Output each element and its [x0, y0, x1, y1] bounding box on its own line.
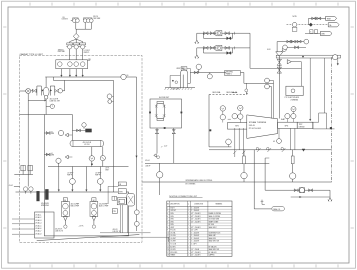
- svg-text:JB: JB: [119, 184, 121, 186]
- tank left feed column: [43, 115, 45, 193]
- svg-text:TC CON: TC CON: [170, 244, 176, 246]
- right isolation valve: [55, 89, 59, 92]
- left filter bracket: [37, 86, 42, 96]
- svg-text:TRIP: TRIP: [299, 124, 303, 126]
- svg-text:CTB: CTB: [113, 211, 116, 213]
- svg-text:DRN: DRN: [170, 213, 173, 215]
- svg-text:MTR DRVN: MTR DRVN: [41, 205, 49, 207]
- vertical feed to cooler: [71, 115, 73, 141]
- svg-text:1/2" - 150LB R: 1/2" - 150LB R: [191, 227, 200, 229]
- svg-text:LUB OIL TK: LUB OIL TK: [55, 230, 63, 232]
- drain stub valve 1: [44, 132, 50, 134]
- svg-text:CONC SUMP: CONC SUMP: [171, 89, 179, 91]
- manifold row 5: [283, 45, 288, 50]
- svg-text:OIL RET: OIL RET: [170, 238, 176, 240]
- svg-text:14: 14: [167, 244, 169, 246]
- svg-text:415-V3-PM: 415-V3-PM: [41, 203, 49, 205]
- instrument shelf corner: [108, 185, 118, 187]
- SPG gauges: [285, 114, 290, 119]
- svg-text:DRN: DRN: [170, 224, 173, 226]
- svg-text:GD: GD: [273, 141, 275, 143]
- drain drop with gauge x=292.7: [292, 150, 294, 156]
- flow indicator FI cluster: [196, 64, 201, 69]
- SPG box: [278, 122, 298, 128]
- instrument group PSH (trip sensors): [83, 18, 92, 20]
- svg-text:NO: NO: [167, 204, 169, 206]
- svg-text:DRN: DRN: [51, 155, 54, 157]
- branch to three regulators: [70, 39, 83, 41]
- pressure switches on tank top: [23, 187, 27, 191]
- svg-text:LUBE OIL STR: LUBE OIL STR: [50, 100, 61, 102]
- drain stub valve 2: [44, 154, 50, 156]
- accumulator unit box: [150, 99, 182, 128]
- svg-text:GEN SPEC: GEN SPEC: [226, 72, 233, 74]
- svg-text:1/2" - 150LB R: 1/2" - 150LB R: [191, 221, 200, 223]
- svg-text:SRN: SRN: [88, 59, 91, 61]
- svg-text:TRSH: TRSH: [327, 18, 331, 20]
- vertical pump P1: [63, 198, 67, 202]
- turbine drain header y=149.8: [209, 149, 332, 151]
- svg-text:BY USE: BY USE: [209, 224, 214, 226]
- bearing box BRG: [228, 123, 248, 130]
- shaft end bearing: [333, 55, 338, 60]
- svg-text:SCREWED PLUG: SCREWED PLUG: [209, 232, 222, 234]
- notes box with leader lines: [35, 212, 55, 238]
- svg-text:PR OIL: PR OIL: [93, 16, 98, 18]
- svg-text:PT-421-0101: PT-421-0101: [249, 128, 262, 130]
- immersion heater: [118, 189, 126, 194]
- svg-text:OIL: OIL: [62, 17, 65, 19]
- svg-text:2" - 150LB R: 2" - 150LB R: [191, 210, 199, 212]
- vent stack with gooseneck: [179, 73, 181, 88]
- sample flag 2: [65, 155, 68, 159]
- svg-text:1" - 150LB R: 1" - 150LB R: [191, 241, 199, 243]
- lines from bearing box down to drain header: [234, 128, 236, 150]
- header y=163.3: [145, 162, 269, 164]
- logic diamond: [73, 33, 79, 39]
- pressure regulator valve at x=76.2: [73, 43, 79, 45]
- svg-text:THRU B: THRU B: [58, 49, 64, 51]
- SEAL OIL connector flag: [272, 207, 285, 211]
- small callout left: [181, 67, 187, 71]
- svg-text:MN LO PMP: MN LO PMP: [71, 206, 79, 208]
- suction line and left isolation valve: [31, 90, 33, 92]
- ground hatch: [165, 87, 195, 89]
- vertical pump P2: [92, 198, 96, 202]
- stacked gauges x=109.6: [107, 94, 112, 99]
- manifold row 3: [305, 33, 320, 35]
- pressure regulator valve at x=82.7: [80, 43, 86, 45]
- svg-text:DRN: DRN: [170, 221, 173, 223]
- svg-text:Q: Q: [188, 204, 189, 206]
- lower tail line: [291, 196, 330, 198]
- svg-text:DRN: DRN: [170, 216, 173, 218]
- svg-text:501-B: 501-B: [249, 125, 255, 127]
- tank top instrument circles: [56, 158, 61, 163]
- cabinet boundary CABINET TYPE LO UNIT (dashed): [19, 55, 142, 242]
- seal oil drain run: [253, 150, 255, 209]
- return drops into tank: [58, 167, 60, 190]
- svg-text:2" - 150LB R: 2" - 150LB R: [191, 207, 199, 209]
- steam inlet valves: [278, 56, 280, 118]
- pump bypass return: [28, 94, 44, 101]
- svg-text:VENT: VENT: [170, 227, 174, 229]
- dark inline devices (level columns): [37, 191, 40, 201]
- lube oil tank outline: [44, 192, 128, 236]
- PTC junction box: [286, 86, 303, 95]
- svg-text:1" - NPT: 1" - NPT: [191, 244, 197, 246]
- svg-text:1/2" - NPT: 1/2" - NPT: [191, 230, 198, 232]
- turbine shaft band: [276, 55, 340, 58]
- console bottom gauge: [226, 139, 232, 145]
- svg-text:OUTLET: OUTLET: [170, 210, 176, 212]
- svg-text:1" - 150LB R: 1" - 150LB R: [191, 232, 199, 234]
- turbine console box (dashed top): [209, 94, 247, 96]
- branch into turbine console with junction gauge: [245, 83, 247, 93]
- svg-text:15: 15: [167, 246, 169, 248]
- cabinet edge gauges: [134, 210, 139, 215]
- stack side tap: [170, 75, 180, 77]
- svg-text:DRN: DRN: [170, 219, 173, 221]
- svg-text:415-V3: 415-V3: [113, 229, 118, 231]
- CTB box: [112, 209, 117, 214]
- manifold row 4: [277, 41, 304, 43]
- box nozzle marks: [149, 112, 151, 114]
- svg-text:LO SPLY: LO SPLY: [84, 50, 90, 52]
- svg-text:DRN: DRN: [321, 34, 324, 36]
- svg-text:LO CLR: LO CLR: [84, 144, 90, 146]
- drain pot symbol: [262, 200, 265, 205]
- trip device box: [297, 122, 313, 128]
- svg-text:1/2" - 150LB R: 1/2" - 150LB R: [191, 213, 200, 215]
- motor starter box with 4 indicators: [56, 60, 88, 69]
- ZS switch pair: [21, 165, 25, 171]
- manifold row 2 (signal): [287, 24, 329, 26]
- discharge check circle: [58, 89, 62, 93]
- svg-text:LVL SW: LVL SW: [170, 249, 176, 251]
- signal lines to logic diamond: [75, 23, 77, 30]
- supply header B (y=80.4): [52, 77, 54, 80]
- accumulator vessel: [157, 102, 164, 104]
- pressure regulator valve at x=69.7: [67, 43, 73, 45]
- supply header A (y=77): [45, 76, 136, 78]
- skid base slant: [37, 235, 140, 241]
- svg-text:17: 17: [167, 252, 169, 254]
- svg-text:TRIP SNR: TRIP SNR: [93, 18, 101, 20]
- sample flag 1: [65, 133, 68, 137]
- svg-text:BY OTHERS: BY OTHERS: [186, 184, 197, 186]
- svg-text:PMP P1: PMP P1: [67, 174, 73, 176]
- right filter bracket: [50, 86, 55, 96]
- flow arrows from starter box to supply header: [60, 69, 62, 76]
- drain to header: [173, 134, 175, 164]
- svg-text:415-V3-PMP: 415-V3-PMP: [99, 204, 108, 206]
- suction line from tank along cabinet edge: [27, 100, 29, 186]
- drain drop with gauge x=244: [243, 150, 245, 156]
- svg-text:CABINET TYPE LO UNIT: CABINET TYPE LO UNIT: [20, 53, 44, 56]
- level element LE box: [117, 198, 126, 205]
- svg-text:3" - 150LB R: 3" - 150LB R: [191, 238, 199, 240]
- oil cooler capsule: [70, 140, 104, 146]
- governor gauge: [277, 139, 282, 144]
- gauges below cooler: [89, 156, 94, 161]
- trap discharge line down then right to turbine gland: [249, 33, 251, 68]
- svg-text:11: 11: [167, 235, 169, 237]
- svg-text:FE: FE: [127, 75, 129, 77]
- line down to vent stack: [188, 73, 191, 84]
- svg-text:DEVICE: DEVICE: [299, 126, 305, 128]
- svg-text:16: 16: [167, 249, 169, 251]
- heater junction box: [118, 182, 126, 186]
- steam turbine: [247, 115, 278, 138]
- svg-text:OIL FILL: OIL FILL: [170, 235, 176, 237]
- equipment callout GEN SPEC: [225, 71, 241, 76]
- svg-text:415-V3-STR: 415-V3-STR: [50, 99, 59, 101]
- svg-text:10: 10: [167, 232, 169, 234]
- svg-text:1/2" - 150LB R: 1/2" - 150LB R: [191, 255, 200, 257]
- manifold row 1: [309, 17, 326, 19]
- svg-text:1.5" - 150LB: 1.5" - 150LB: [191, 249, 199, 251]
- svg-text:PMP P1: PMP P1: [84, 52, 90, 54]
- svg-text:S: S: [310, 32, 311, 34]
- svg-text:LUB OIL TK: LUB OIL TK: [113, 231, 121, 233]
- svg-text:DESCRIPTION: DESCRIPTION: [170, 204, 179, 206]
- svg-text:- LO TK: - LO TK: [78, 225, 83, 227]
- svg-text:DRN: DRN: [51, 133, 54, 135]
- svg-text:18: 18: [167, 255, 169, 257]
- svg-text:VENT: VENT: [105, 169, 109, 171]
- match line (dash-dot): [331, 57, 333, 182]
- svg-text:PI CON: PI CON: [170, 230, 175, 232]
- trip linkage loop: [310, 113, 326, 129]
- svg-text:CONS W: CONS W: [62, 19, 69, 21]
- svg-text:CONNECTION: CONNECTION: [194, 204, 203, 206]
- steam trap assembly 2: [197, 47, 250, 49]
- svg-text:PMP P2: PMP P2: [95, 174, 101, 176]
- svg-text:12: 12: [167, 238, 169, 240]
- gauge cluster over bearing box: [220, 106, 225, 111]
- svg-text:415-V3-PMP: 415-V3-PMP: [71, 204, 80, 206]
- svg-text:1/2" - 150LB R: 1/2" - 150LB R: [191, 219, 200, 221]
- steam trap assembly 1: [197, 32, 250, 34]
- svg-text:PTC JUNCTION BOX: PTC JUNCTION BOX: [285, 97, 300, 99]
- flow element FE on header A: [121, 74, 126, 79]
- trap 2 vent: [196, 48, 198, 55]
- svg-text:415-V3-TK: 415-V3-TK: [55, 228, 62, 230]
- return pipe to left riser: [20, 114, 73, 116]
- svg-text:13: 13: [167, 241, 169, 243]
- main oil pump circle with X: [26, 89, 31, 94]
- casing drain drops: [309, 58, 311, 119]
- left instrument elbows: [265, 78, 270, 83]
- svg-text:LO TK: LO TK: [105, 167, 109, 169]
- svg-text:STEAM TURBINE: STEAM TURBINE: [249, 121, 267, 124]
- svg-text:INLET: INLET: [170, 207, 174, 209]
- SPG drop lines to drain header: [289, 128, 291, 149]
- drain drop with gauge x=159.7: [159, 163, 161, 171]
- svg-text:GOV SIDE DRN: GOV SIDE DRN: [209, 219, 219, 221]
- internal piping verticals: [119, 205, 121, 233]
- trap 2 bypass with closed valve: [204, 48, 233, 53]
- svg-text:BY SELLER: BY SELLER: [209, 252, 217, 254]
- duplex strainer vessel: [45, 77, 47, 87]
- distribution header y=166.5: [48, 166, 129, 168]
- svg-text:(TURBINE): (TURBINE): [291, 99, 299, 101]
- trap 1 bypass with closed valve: [204, 33, 233, 38]
- accumulator drain valves: [156, 128, 158, 131]
- svg-text:PIPG NPS: PIPG NPS: [170, 252, 177, 254]
- scope break line: [142, 181, 332, 183]
- svg-text:1/2" - 150LB R: 1/2" - 150LB R: [191, 252, 200, 254]
- purge line with meter: [264, 158, 266, 190]
- svg-text:NOTE: NOTE: [293, 16, 297, 18]
- gland line with open arrow: [287, 60, 291, 64]
- svg-text:415-V3-CLR: 415-V3-CLR: [83, 142, 92, 144]
- svg-text:INTERMEDIATE LUBE OIL PIPIN: INTERMEDIATE LUBE OIL PIPING: [186, 179, 213, 182]
- trap 1 vent: [196, 33, 198, 40]
- thermometer TI: [45, 99, 47, 114]
- drain line with vent symbol: [156, 134, 158, 154]
- svg-text:2" - 150LB R: 2" - 150LB R: [191, 235, 199, 237]
- level switch box: [112, 196, 117, 200]
- svg-text:EL HTR: EL HTR: [170, 246, 175, 248]
- level gauge capsule: [127, 193, 135, 206]
- svg-text:LE: LE: [118, 201, 120, 203]
- svg-text:OIL RET: OIL RET: [170, 241, 176, 243]
- svg-text:1/2" - 150LB R: 1/2" - 150LB R: [191, 216, 200, 218]
- tie-in symbols: [257, 148, 261, 152]
- accumulator charge cluster: [72, 129, 85, 131]
- svg-text:LUB OP: LUB OP: [145, 166, 150, 168]
- drop tie-in valves below header: [234, 150, 236, 157]
- svg-text:BY SELLER: BY SELLER: [209, 246, 217, 248]
